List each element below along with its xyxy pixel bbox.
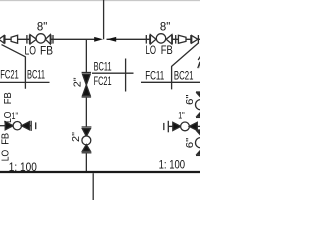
- ball valve V2 8-inch (outlined): [149, 35, 151, 44]
- ball valve 6-inch lower at right edge (cut off): [196, 129, 200, 131]
- ball valve V1 8-inch (outlined): [29, 35, 31, 44]
- leader diagonal right: [172, 43, 199, 90]
- wire: top header vertical pipe: [103, 0, 105, 39]
- class break underline right: [141, 81, 200, 83]
- svg-text:LO: LO: [25, 44, 37, 58]
- check valve at left edge (cut off): [0, 36, 4, 44]
- check valve right: [190, 35, 192, 44]
- drawing border bottom (thick): [0, 171, 200, 173]
- flow arrow pointing left into header: [107, 37, 116, 42]
- partial glyph at right edge: [198, 62, 201, 68]
- svg-text:2": 2": [71, 132, 82, 142]
- wire: 2-inch branch pipe upper: [85, 40, 87, 73]
- leader diagonal left: [2, 45, 26, 89]
- flange bar tall right: [167, 121, 169, 133]
- gasket bar left of ball valve V2: [145, 35, 147, 44]
- svg-text:BC11: BC11: [94, 60, 112, 74]
- faint cropped border line at top edge: [0, 0, 200, 2]
- ball valve 1-inch right (filled): [173, 122, 181, 130]
- svg-text:2": 2": [73, 77, 84, 87]
- ball valve 1-inch left (filled): [5, 122, 13, 130]
- svg-text:6": 6": [184, 94, 196, 105]
- wire: stub below border: [92, 173, 94, 200]
- svg-text:FC21: FC21: [0, 68, 19, 82]
- svg-text:FB: FB: [40, 44, 53, 58]
- svg-text:FC21: FC21: [94, 74, 112, 88]
- svg-text:FC11: FC11: [145, 68, 164, 82]
- gate valve 2-inch (filled): [82, 72, 92, 74]
- gasket bar left of ball valve V1: [26, 35, 28, 44]
- reducer (cone) left: [11, 35, 18, 43]
- svg-text:1: 100: 1: 100: [159, 158, 186, 172]
- svg-text:8": 8": [37, 20, 47, 34]
- wire: top-left 8-inch line: [0, 38, 95, 40]
- svg-text:8": 8": [160, 20, 170, 34]
- flange bar tall left: [30, 121, 32, 131]
- svg-text:FB: FB: [161, 43, 173, 57]
- svg-text:1: 100: 1: 100: [9, 160, 37, 174]
- svg-text:FB: FB: [2, 92, 14, 104]
- class break tick center: [125, 59, 127, 92]
- svg-text:BC11: BC11: [27, 68, 45, 82]
- flow arrow pointing right into header: [94, 37, 103, 42]
- gasket bar right of ball valve V1: [52, 35, 54, 44]
- blind flange bar short right: [163, 123, 165, 130]
- blind flange bar short left: [35, 122, 37, 129]
- svg-text:FB: FB: [0, 133, 11, 145]
- wire: 2-inch branch pipe middle: [85, 98, 87, 127]
- wire: 1-inch stub left: [0, 125, 5, 127]
- wire: 2-inch branch pipe lower: [85, 154, 87, 172]
- wire: 1-inch line to right edge: [197, 125, 200, 127]
- svg-text:LO: LO: [146, 43, 157, 57]
- svg-text:6": 6": [184, 138, 196, 149]
- class break underline left: [0, 81, 50, 83]
- ball valve 2-inch (filled triangles): [82, 126, 92, 128]
- reducer (cone) right: [178, 35, 186, 43]
- svg-text:1": 1": [178, 111, 185, 121]
- svg-text:1": 1": [12, 111, 19, 121]
- svg-text:BC21: BC21: [174, 68, 194, 82]
- gasket bar right of ball valve V2: [175, 35, 177, 44]
- wire: top-right 8-inch line: [107, 38, 201, 40]
- class break line center: [92, 72, 134, 74]
- ball valve 6-inch upper at right edge (cut off): [196, 91, 200, 93]
